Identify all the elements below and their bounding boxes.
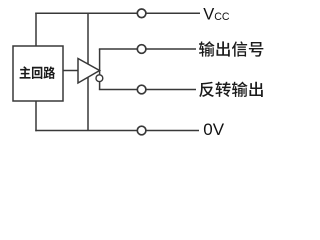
wire output signal branch left [99, 48, 137, 50]
net label 反转输出 (inverted output) [199, 82, 263, 97]
svg-text:VCC: VCC [203, 5, 230, 23]
wire from main block top to Vcc rail [35, 13, 37, 46]
wire 0V rail right segment [146, 130, 199, 132]
main circuit block 主回路 [13, 46, 63, 101]
svg-text:0V: 0V [203, 120, 224, 139]
terminal circle 0V [137, 126, 146, 135]
label 主回路 (main circuit) [20, 66, 56, 79]
wire output vertical node [99, 49, 101, 90]
wire buffer ground to 0V rail [87, 77, 89, 130]
wire main block bottom to 0V rail [35, 101, 37, 131]
wire main block output to buffer input [63, 70, 78, 72]
terminal circle output signal [137, 45, 146, 54]
junction Vcc rail to buffer power, vertical wire [87, 13, 89, 64]
net label 输出信号 (output signal) [199, 41, 263, 56]
wire output signal branch right [146, 48, 196, 50]
terminal circle inverted output [137, 85, 146, 94]
inversion bubble on lower output [96, 75, 103, 82]
wire 0V rail left segment [35, 130, 137, 132]
terminal circle Vcc [137, 9, 146, 18]
wire Vcc rail left segment [35, 12, 137, 14]
buffer amplifier triangle [78, 59, 100, 84]
wire Vcc rail right segment [146, 12, 200, 14]
wire inverted output branch right [146, 89, 196, 91]
wire inverted output branch left [99, 89, 137, 91]
